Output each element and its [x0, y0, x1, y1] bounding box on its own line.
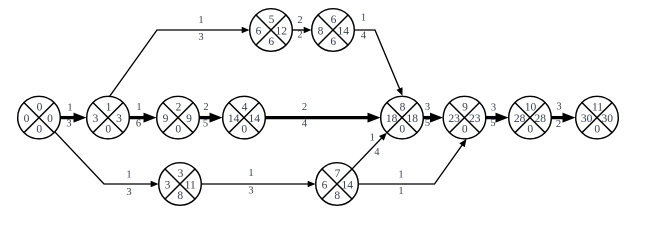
- svg-text:30: 30: [581, 113, 593, 125]
- svg-text:3: 3: [178, 168, 184, 180]
- svg-text:8: 8: [400, 101, 406, 113]
- arrow 3b-7: [202, 181, 316, 188]
- svg-text:1: 1: [106, 101, 112, 113]
- svg-text:12: 12: [275, 25, 287, 37]
- svg-text:0: 0: [462, 123, 468, 135]
- svg-text:3: 3: [198, 32, 203, 43]
- svg-text:5: 5: [425, 118, 430, 129]
- svg-text:3: 3: [491, 102, 496, 113]
- svg-text:8: 8: [334, 190, 340, 202]
- svg-text:3: 3: [126, 187, 131, 198]
- node 11: [576, 96, 619, 139]
- svg-text:6: 6: [330, 36, 336, 48]
- arrow 10-11: [552, 113, 576, 123]
- svg-text:28: 28: [534, 113, 546, 125]
- svg-text:4: 4: [302, 118, 308, 129]
- svg-text:1: 1: [361, 13, 366, 24]
- svg-text:0: 0: [527, 123, 533, 135]
- svg-text:11: 11: [185, 179, 196, 191]
- svg-text:14: 14: [248, 113, 260, 125]
- svg-text:4: 4: [242, 101, 248, 113]
- svg-text:9: 9: [462, 101, 468, 113]
- svg-text:0: 0: [175, 123, 181, 135]
- svg-text:23: 23: [469, 113, 481, 125]
- svg-text:0: 0: [399, 123, 405, 135]
- svg-text:6: 6: [256, 25, 262, 37]
- svg-text:8: 8: [318, 25, 324, 37]
- svg-text:1: 1: [126, 170, 131, 181]
- svg-text:0: 0: [24, 113, 30, 125]
- svg-text:6: 6: [136, 118, 141, 129]
- svg-text:2: 2: [302, 102, 307, 113]
- svg-text:2: 2: [297, 30, 302, 41]
- arrow 9-10: [486, 113, 509, 123]
- node 1: [18, 96, 61, 139]
- svg-text:3: 3: [425, 102, 430, 113]
- svg-text:18: 18: [386, 113, 398, 125]
- arrow 4-8: [266, 113, 381, 123]
- svg-text:3: 3: [66, 119, 71, 130]
- svg-text:23: 23: [448, 113, 460, 125]
- svg-text:7: 7: [335, 168, 341, 180]
- arrow 7-9: [359, 139, 467, 184]
- node 8: [381, 96, 424, 139]
- svg-text:28: 28: [514, 113, 526, 125]
- arrow 1-3b: [54, 131, 158, 187]
- svg-text:11: 11: [592, 101, 603, 113]
- svg-text:2: 2: [556, 119, 561, 130]
- node 6: [312, 9, 355, 52]
- svg-text:6: 6: [331, 14, 337, 26]
- svg-text:5: 5: [269, 14, 275, 26]
- svg-text:14: 14: [228, 113, 240, 125]
- node 2: [87, 96, 130, 139]
- svg-text:5: 5: [490, 118, 495, 129]
- svg-text:1: 1: [248, 168, 253, 179]
- svg-text:14: 14: [341, 179, 353, 191]
- svg-text:1: 1: [370, 132, 375, 143]
- svg-text:0: 0: [36, 123, 42, 135]
- svg-text:1: 1: [67, 103, 72, 114]
- svg-text:6: 6: [322, 179, 328, 191]
- svg-text:2: 2: [297, 15, 302, 26]
- svg-text:1: 1: [136, 102, 141, 113]
- svg-text:0: 0: [47, 113, 53, 125]
- svg-text:3: 3: [165, 179, 171, 191]
- svg-text:1: 1: [398, 186, 403, 197]
- node 4: [223, 96, 266, 139]
- svg-text:2: 2: [203, 102, 208, 113]
- svg-text:0: 0: [241, 123, 247, 135]
- node 3b: [159, 163, 202, 206]
- svg-text:18: 18: [406, 113, 418, 125]
- arrow 3-4: [200, 113, 223, 123]
- svg-text:9: 9: [186, 113, 192, 125]
- arrow 8-9: [424, 113, 444, 123]
- node 10: [509, 96, 552, 139]
- svg-text:14: 14: [337, 25, 349, 37]
- svg-text:5: 5: [203, 118, 208, 129]
- svg-text:0: 0: [594, 123, 600, 135]
- svg-text:3: 3: [556, 102, 561, 113]
- svg-text:30: 30: [601, 113, 613, 125]
- node 9: [443, 96, 486, 139]
- node 3: [157, 96, 200, 139]
- node 5: [250, 9, 293, 52]
- svg-text:10: 10: [525, 101, 537, 113]
- svg-text:1: 1: [398, 170, 403, 181]
- arrow 7-8: [352, 133, 387, 169]
- arrow 5-6: [293, 27, 312, 34]
- svg-text:2: 2: [176, 101, 182, 113]
- arrow 2-5: [110, 27, 250, 97]
- svg-text:3: 3: [116, 113, 122, 125]
- arrow 2-3: [130, 113, 157, 123]
- arrow 6-8: [355, 30, 403, 96]
- svg-text:9: 9: [163, 113, 169, 125]
- svg-text:0: 0: [37, 101, 43, 113]
- svg-text:6: 6: [268, 36, 274, 48]
- svg-text:4: 4: [361, 31, 367, 42]
- svg-text:0: 0: [105, 123, 111, 135]
- svg-text:3: 3: [248, 186, 253, 197]
- node 7: [316, 163, 359, 206]
- svg-text:1: 1: [198, 15, 203, 26]
- arrow 1-2: [61, 113, 87, 123]
- svg-text:8: 8: [177, 190, 183, 202]
- svg-text:4: 4: [374, 147, 380, 158]
- svg-text:3: 3: [93, 113, 99, 125]
